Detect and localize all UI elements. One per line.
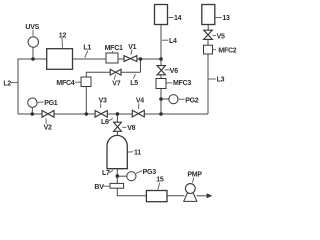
- svg-text:L7: L7: [102, 170, 110, 177]
- svg-text:L5: L5: [130, 80, 138, 87]
- junction node L7 / PG3: [116, 174, 120, 178]
- leader tick V5: [213, 35, 216, 37]
- valve V8: [114, 122, 122, 131]
- wire PG3 stub: [117, 175, 127, 177]
- leader tick V8: [122, 126, 126, 128]
- svg-text:L2: L2: [3, 80, 11, 87]
- svg-text:MFC2: MFC2: [218, 48, 236, 55]
- svg-text:PG2: PG2: [185, 97, 199, 104]
- wire MFC4 bottom drop: [85, 87, 87, 115]
- svg-text:PG1: PG1: [44, 100, 58, 107]
- wire MFC1 to V1: [118, 58, 124, 60]
- wire V7 to L5: [121, 71, 141, 73]
- svg-text:UVS: UVS: [25, 24, 39, 31]
- leader tick PMP: [193, 178, 194, 183]
- wire left rail L2: [17, 59, 19, 115]
- wire L4 vertical: [160, 25, 162, 60]
- tank box 14: [155, 5, 168, 25]
- wire box15 to pump: [168, 195, 185, 197]
- leader tick MFC3: [167, 82, 173, 84]
- wire V5 to MFC2: [207, 39, 209, 45]
- wire L5 riser: [140, 59, 142, 72]
- valve V5: [204, 30, 213, 39]
- junction node L4 / V6: [159, 57, 163, 61]
- leader tick MFC4: [75, 81, 81, 83]
- svg-text:MFC1: MFC1: [105, 45, 123, 52]
- valve V4: [132, 110, 144, 117]
- wire MFC4 top to V7: [86, 72, 110, 77]
- valve V6: [157, 66, 165, 75]
- leader tick PG2: [179, 98, 185, 100]
- svg-text:MFC4: MFC4: [56, 80, 74, 87]
- mass flow controller MFC3: [156, 79, 166, 89]
- leader tick L4: [162, 39, 168, 41]
- leader tick 12: [61, 38, 64, 48]
- leader tick UVS: [32, 30, 34, 36]
- svg-text:L1: L1: [83, 44, 91, 51]
- valve V1: [124, 56, 137, 62]
- leader tick BV: [103, 185, 110, 187]
- svg-text:V6: V6: [170, 68, 178, 75]
- wire V8 to vessel: [116, 131, 118, 136]
- pressure gauge PG2: [169, 95, 178, 104]
- valve V2: [42, 111, 54, 118]
- leader tick L5: [133, 74, 135, 78]
- leader tick 14: [168, 17, 173, 19]
- wire BV to box15: [117, 188, 146, 196]
- leader tick L2: [11, 82, 18, 84]
- wire V1 to L4 junction: [137, 58, 161, 60]
- outlet arrowhead: [207, 193, 213, 198]
- junction node PG2 stub: [159, 97, 163, 101]
- svg-text:PG3: PG3: [143, 169, 157, 176]
- svg-text:L6: L6: [101, 119, 109, 126]
- valve V3: [95, 111, 107, 118]
- valve V7: [110, 69, 121, 75]
- leader tick V1: [131, 50, 132, 55]
- pressure gauge PG3: [127, 172, 136, 181]
- svg-text:15: 15: [156, 176, 164, 183]
- pressure gauge PG1: [28, 98, 37, 107]
- leader tick V7: [114, 75, 115, 80]
- svg-text:L3: L3: [217, 77, 225, 84]
- svg-text:V8: V8: [127, 125, 135, 132]
- wire PG1 stub: [31, 108, 33, 114]
- svg-text:14: 14: [174, 15, 182, 22]
- leader tick L6: [108, 118, 113, 121]
- wire top header line left segment: [18, 58, 46, 60]
- leader tick 15: [158, 183, 160, 190]
- leader tick MFC2: [213, 49, 216, 51]
- leader tick PG3: [136, 171, 142, 174]
- leader tick L1: [85, 51, 88, 58]
- wire L6 drop: [116, 114, 118, 122]
- pump PMP symbol: [184, 184, 197, 202]
- leader tick MFC1: [112, 51, 114, 53]
- junction node MFC3 line / main line: [159, 112, 163, 116]
- wire L7 vessel drop to BV: [116, 169, 118, 184]
- UV sensor UVS: [28, 37, 38, 47]
- svg-text:V5: V5: [217, 33, 225, 40]
- svg-text:V7: V7: [112, 81, 120, 88]
- leader tick 13: [215, 17, 222, 19]
- junction node MFC4 / main line: [85, 112, 89, 116]
- leader tick L7: [109, 170, 113, 172]
- svg-text:PMP: PMP: [187, 171, 202, 178]
- leader tick L3: [209, 78, 216, 80]
- wire UVS drop: [32, 48, 34, 60]
- junction node PG1: [31, 112, 35, 116]
- wire box12 to MFC1: [73, 58, 106, 60]
- junction node V1 / L5: [139, 57, 143, 61]
- svg-text:V3: V3: [99, 97, 107, 104]
- wire MFC3 to main line: [160, 89, 162, 115]
- svg-text:13: 13: [222, 15, 230, 22]
- trap box 15: [146, 191, 167, 202]
- wire pump outlet: [197, 195, 208, 197]
- svg-text:12: 12: [59, 32, 67, 39]
- mass flow controller MFC1: [106, 53, 118, 63]
- svg-text:V1: V1: [128, 44, 136, 51]
- leader tick V3: [100, 103, 102, 108]
- junction node at UVS drop: [31, 57, 35, 61]
- mass flow controller MFC4: [81, 77, 91, 87]
- mass flow controller MFC2: [204, 45, 213, 54]
- leader tick V4: [138, 103, 140, 109]
- wire PG2 stub: [161, 98, 169, 100]
- leader tick 11: [128, 151, 134, 153]
- svg-text:V4: V4: [136, 97, 144, 104]
- svg-text:BV: BV: [94, 184, 104, 191]
- wire box13 to V5: [207, 25, 209, 31]
- tank box 13: [202, 5, 215, 25]
- wire V6 to MFC3: [160, 75, 162, 79]
- svg-text:V2: V2: [44, 125, 52, 132]
- vessel 11 chamber: [107, 135, 127, 168]
- wire main bottom line: [18, 113, 208, 115]
- wire L3 vertical MFC2 to main line: [207, 54, 209, 114]
- svg-text:L4: L4: [169, 38, 177, 45]
- reservoir box 12: [47, 49, 73, 70]
- svg-text:11: 11: [134, 149, 141, 156]
- leader tick V6: [165, 69, 170, 71]
- wire junction to V6: [160, 59, 162, 66]
- leader tick V2: [45, 119, 47, 125]
- leader tick PG1: [38, 101, 44, 103]
- junction node L6: [116, 112, 120, 116]
- svg-text:MFC3: MFC3: [173, 80, 191, 87]
- bellows valve BV: [110, 183, 124, 188]
